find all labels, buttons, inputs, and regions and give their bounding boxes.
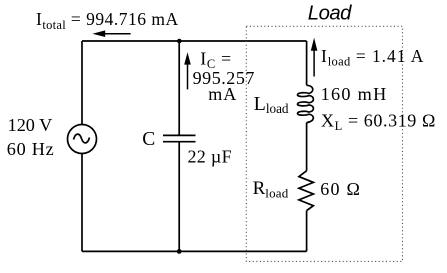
node bottom junction	[177, 249, 182, 254]
resistor Rload zigzag	[299, 171, 314, 211]
wire between inductor and resistor	[306, 123, 308, 171]
sine glyph	[74, 134, 90, 143]
wire capacitor branch upper	[178, 41, 180, 135]
svg-text:XL = 60.319 Ω: XL = 60.319 Ω	[321, 110, 436, 133]
svg-text:Itotal = 994.716 mA: Itotal = 994.716 mA	[36, 9, 179, 32]
svg-text:mA: mA	[208, 84, 237, 104]
svg-text:60 Hz: 60 Hz	[7, 139, 55, 159]
source V1	[68, 125, 97, 154]
dashed Load box	[246, 26, 402, 261]
wire capacitor branch lower	[178, 143, 180, 252]
svg-text:Load: Load	[308, 3, 352, 25]
capacitor C top plate	[163, 134, 196, 136]
svg-text:Iload = 1.41 A: Iload = 1.41 A	[321, 46, 424, 69]
svg-text:60 Ω: 60 Ω	[320, 179, 361, 199]
svg-text:120 V: 120 V	[8, 115, 53, 135]
arrow IC (up)	[184, 52, 191, 89]
arrow Itotal (left)	[92, 30, 130, 37]
wire load branch upper	[306, 41, 308, 85]
svg-text:160 mH: 160 mH	[321, 84, 388, 104]
wire top	[82, 40, 307, 42]
wire load branch lower	[306, 211, 308, 252]
wire left upper	[81, 41, 83, 124]
svg-text:22 µF: 22 µF	[188, 146, 232, 166]
svg-text:Rload: Rload	[253, 178, 289, 200]
wire bottom	[82, 250, 307, 252]
svg-text:C: C	[142, 129, 155, 150]
wire left lower	[81, 154, 83, 252]
inductor Lload coil	[297, 85, 313, 122]
node top junction	[177, 39, 182, 44]
capacitor C bottom plate	[163, 141, 196, 143]
svg-text:Lload: Lload	[254, 93, 289, 116]
arrow Iload (up)	[311, 38, 318, 77]
